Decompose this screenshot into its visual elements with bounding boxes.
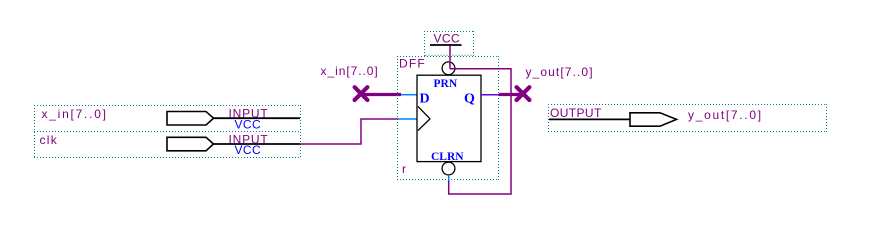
CLRN pin stub [448, 175, 450, 181]
svg-text:y_out[7..0]: y_out[7..0] [688, 108, 763, 122]
svg-text:CLRN: CLRN [431, 151, 464, 163]
svg-text:DFF: DFF [399, 57, 426, 71]
bus Q to X [499, 93, 523, 96]
VCC power symbol [424, 31, 474, 56]
bus x_in dangling X [355, 87, 368, 100]
svg-text:Q: Q [464, 92, 475, 107]
dff r [397, 56, 499, 180]
svg-text:VCC: VCC [434, 32, 461, 46]
svg-text:clk: clk [40, 133, 59, 147]
svg-text:y_out[7..0]: y_out[7..0] [526, 65, 594, 79]
svg-text:PRN: PRN [434, 78, 458, 90]
wire VCC to PRN [449, 46, 451, 69]
svg-text:D: D [420, 92, 430, 107]
bus x_in to D [361, 93, 401, 96]
svg-text:x_in[7..0]: x_in[7..0] [42, 107, 108, 121]
bus y_out dangling X [517, 87, 530, 100]
output pin y_out[7..0] [548, 104, 827, 132]
Q pin stub [481, 94, 499, 96]
input pin x_in[7..0] [34, 105, 301, 132]
svg-text:OUTPUT: OUTPUT [550, 106, 602, 120]
node y_out[7..0] bus label [526, 65, 594, 79]
svg-text:VCC: VCC [235, 117, 262, 131]
node x_in[7..0] bus label [321, 64, 379, 78]
input pin clk [34, 132, 301, 158]
clk pin stub [399, 118, 417, 120]
svg-text:r: r [402, 162, 406, 176]
wire clk net [300, 119, 399, 144]
svg-text:VCC: VCC [235, 143, 262, 157]
D pin stub [401, 94, 417, 96]
wire PRN CLRN loop [449, 69, 511, 194]
svg-text:x_in[7..0]: x_in[7..0] [321, 64, 379, 78]
